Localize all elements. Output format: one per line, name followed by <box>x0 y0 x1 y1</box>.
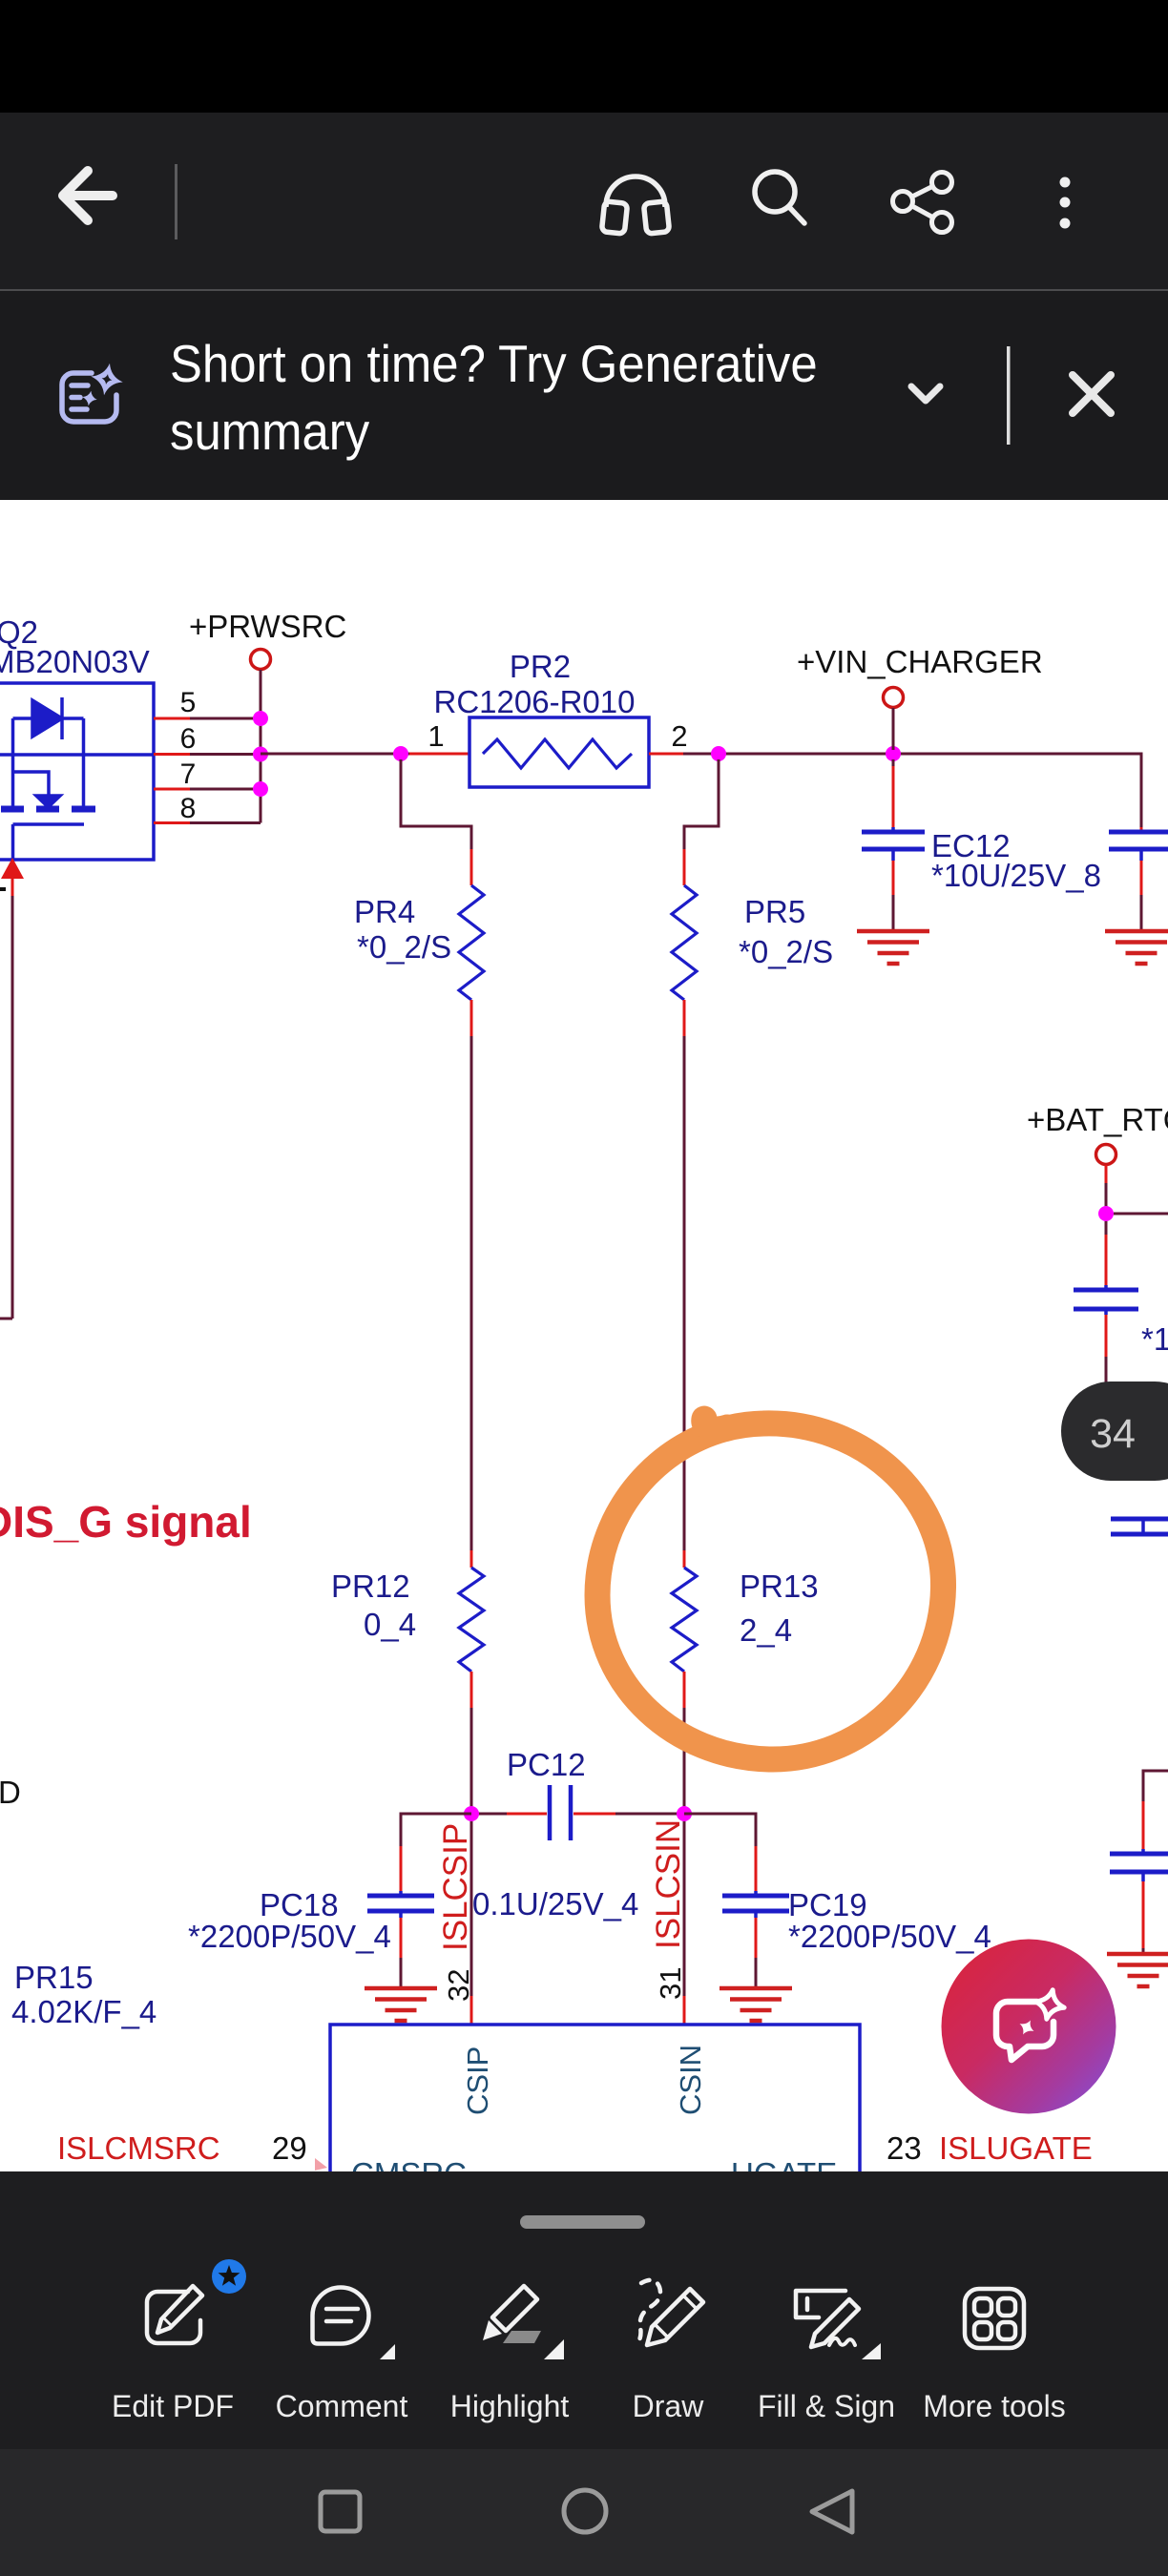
svg-text:*2200P/50V_4: *2200P/50V_4 <box>188 1919 391 1954</box>
svg-text:32: 32 <box>442 1969 475 2002</box>
capacitor right-edge top wire <box>1140 827 1143 832</box>
capacitor BAT wire top <box>1105 1221 1108 1235</box>
app toolbar <box>0 113 1168 291</box>
svg-text:PR4: PR4 <box>354 894 415 929</box>
Highlight icon <box>492 2286 537 2331</box>
junction node BAT <box>1098 1206 1114 1221</box>
generative summary banner <box>0 291 1168 500</box>
search icon <box>755 172 804 223</box>
wire corner lower right <box>1143 1771 1168 1801</box>
junction node VIN <box>886 746 901 761</box>
resistor PR12 top stub <box>470 1550 473 1568</box>
power symbol +VIN_CHARGER circle <box>884 688 904 708</box>
Q2 internal MOSFET structure <box>0 718 154 860</box>
wire PR5 bottom <box>683 1000 686 1036</box>
ground right-edge top <box>1105 931 1168 964</box>
small black tick at left <box>0 887 6 891</box>
capacitor EC12 plates <box>862 832 925 849</box>
banner chevron <box>911 386 940 401</box>
capacitor PC18 plates <box>367 1896 434 1911</box>
svg-text:34: 34 <box>1090 1411 1136 1457</box>
resistor PR13 bottom stub <box>683 1672 686 1708</box>
page number bubble 34 <box>1061 1381 1168 1481</box>
pink selection marker <box>315 2158 327 2171</box>
svg-text:29: 29 <box>272 2130 307 2166</box>
capacitor PC12 plates <box>550 1785 571 1840</box>
Edit PDF icon <box>147 2286 202 2343</box>
capacitor PC19 wire bottom <box>754 1911 758 1918</box>
ground PC19 <box>720 1988 792 2021</box>
Q2 pin 7 stub and wire <box>154 788 190 791</box>
wire branch down to PR5 <box>684 759 719 849</box>
svg-text:ISLCSIN: ISLCSIN <box>650 1819 687 1949</box>
nav back triangle <box>812 2491 852 2532</box>
junction node ISLCSIP <box>464 1806 479 1821</box>
svg-text:D: D <box>0 1775 21 1810</box>
ground EC12 <box>857 931 929 964</box>
svg-text:+PRWSRC: +PRWSRC <box>189 609 346 644</box>
svg-text:8: 8 <box>180 793 197 824</box>
annotation orange circle around PR13 <box>597 1419 944 1759</box>
wire BAT circle down <box>1105 1165 1108 1183</box>
banner divider <box>1007 346 1011 445</box>
svg-text:*10U/25V_8: *10U/25V_8 <box>931 858 1101 893</box>
share icon <box>893 173 952 233</box>
svg-text:+VIN_CHARGER: +VIN_CHARGER <box>797 644 1043 679</box>
nav square <box>321 2492 360 2531</box>
wire left edge with red arrow <box>1 858 24 879</box>
wire +PRWSRC vertical <box>260 670 262 823</box>
resistor PR13 zigzag <box>672 1568 697 1672</box>
svg-text:PR15: PR15 <box>14 1960 94 1995</box>
PR2 pin 2 stub <box>649 753 683 756</box>
capacitor EC12 wire bottom <box>891 849 895 861</box>
junction node ISLCSIN <box>677 1806 692 1821</box>
resistor PR12 zigzag <box>459 1568 484 1672</box>
capacitor below bubble plates <box>1111 1519 1168 1534</box>
capacitor lower right plates <box>1110 1854 1168 1872</box>
svg-text:5: 5 <box>180 687 197 718</box>
resistor PR4 zigzag <box>459 885 484 1000</box>
bottom tool sheet <box>0 2171 1168 2449</box>
wire CSIN vertical into IC <box>683 1821 686 1996</box>
svg-text:1: 1 <box>428 719 444 753</box>
Q2 pin 5 stub and wire <box>154 717 190 720</box>
svg-text:DIS_G signal: DIS_G signal <box>0 1497 252 1547</box>
transistor Q2 body box <box>0 683 154 860</box>
svg-text:CSIP: CSIP <box>461 2046 494 2115</box>
svg-text:PR2: PR2 <box>510 649 571 684</box>
svg-text:PC19: PC19 <box>788 1887 867 1922</box>
svg-text:2_4: 2_4 <box>740 1612 792 1648</box>
capacitor PC12 right stub <box>574 1813 615 1816</box>
svg-text:PC12: PC12 <box>507 1747 586 1782</box>
status bar <box>0 0 1168 113</box>
junction node pin7 <box>253 781 268 797</box>
banner AI doc icon <box>62 364 123 422</box>
resistor PR2 zigzag <box>483 739 632 768</box>
android nav bar <box>0 2449 1168 2576</box>
wire CSIP vertical into IC <box>470 1821 473 1996</box>
svg-text:+BAT_RTC: +BAT_RTC <box>1027 1102 1168 1137</box>
capacitor right-edge top wire bottom <box>1139 849 1143 861</box>
grab handle <box>520 2215 645 2229</box>
back arrow <box>63 171 113 220</box>
wire BAT to right edge <box>1114 1213 1168 1215</box>
svg-text:0_4: 0_4 <box>364 1607 416 1642</box>
svg-text:4.02K/F_4: 4.02K/F_4 <box>11 1994 156 2029</box>
junction node pin6 <box>253 747 268 762</box>
More tools icon <box>965 2289 1024 2348</box>
wire left branch to PC18 <box>401 1814 471 1846</box>
ground PC18 <box>365 1988 437 2021</box>
toolbar divider <box>175 164 177 239</box>
svg-text:*1: *1 <box>1141 1321 1168 1357</box>
capacitor lower right wire bottom <box>1141 1872 1145 1881</box>
power symbol +PRWSRC circle <box>251 650 271 670</box>
wire main net to PR2 pin1 <box>261 753 409 756</box>
junction node PR2 pin1 <box>393 746 408 761</box>
svg-text:UGATE: UGATE <box>731 2156 837 2171</box>
capacitor PC18 wire bottom <box>399 1911 403 1918</box>
Q2 pin 6 stub and wire <box>154 753 190 756</box>
Q2 pin 8 stub and wire <box>154 821 190 824</box>
junction node pin5 <box>253 711 268 726</box>
banner close X <box>1073 375 1111 413</box>
svg-text:PC18: PC18 <box>260 1887 339 1922</box>
wire VIN circle to net <box>892 708 895 750</box>
svg-text:6: 6 <box>180 723 197 755</box>
wire right branch to PC19 <box>684 1814 756 1846</box>
capacitor BAT wire bottom <box>1104 1309 1108 1315</box>
svg-text:ISLUGATE: ISLUGATE <box>939 2130 1093 2166</box>
svg-text:2: 2 <box>671 719 687 753</box>
capacitor BAT plates <box>1074 1290 1138 1309</box>
svg-text:7: 7 <box>180 758 197 790</box>
nav circle <box>564 2490 606 2532</box>
IC box U1 <box>330 2025 860 2192</box>
capacitor right-edge top plates <box>1109 832 1168 849</box>
resistor PR2 body box <box>469 717 649 787</box>
wire main net PR2 to right edge corner <box>719 754 1141 827</box>
svg-text:RC1206-R010: RC1206-R010 <box>434 684 636 719</box>
Comment icon <box>313 2288 369 2344</box>
capacitor PC12 left stub <box>471 1813 507 1816</box>
svg-text:PR5: PR5 <box>744 894 805 929</box>
svg-text:*2200P/50V_4: *2200P/50V_4 <box>788 1919 991 1954</box>
headphones icon <box>601 177 669 234</box>
Draw icon <box>636 2280 703 2345</box>
SCHEMATIC AREA <box>0 500 1168 2171</box>
wire branch down to PR4 <box>401 759 471 849</box>
svg-text:CSIN: CSIN <box>674 2045 707 2115</box>
resistor PR5 zigzag <box>672 885 697 1000</box>
capacitor below bubble stub <box>1141 1519 1145 1534</box>
power symbol +BAT_RTC circle <box>1096 1145 1116 1165</box>
junction node PR2 pin2 <box>711 746 726 761</box>
overflow menu dots <box>1060 177 1071 229</box>
ground lower right <box>1107 1954 1168 1986</box>
capacitor EC12 wire top <box>892 759 895 766</box>
svg-text:MB20N03V: MB20N03V <box>0 644 150 679</box>
capacitor PC19 plates <box>722 1896 789 1911</box>
svg-text:PR12: PR12 <box>331 1568 410 1604</box>
svg-text:CMSRC: CMSRC <box>351 2156 467 2171</box>
svg-text:ISLCSIP: ISLCSIP <box>437 1823 474 1951</box>
wire PR4 bottom <box>470 1000 473 1036</box>
svg-text:ISLCMSRC: ISLCMSRC <box>57 2130 220 2166</box>
svg-text:*0_2/S: *0_2/S <box>357 929 451 965</box>
resistor PR12 bottom stub <box>470 1672 473 1708</box>
svg-text:31: 31 <box>654 1967 687 2000</box>
svg-text:0.1U/25V_4: 0.1U/25V_4 <box>472 1886 638 1922</box>
svg-text:23: 23 <box>886 2130 922 2166</box>
svg-text:PR13: PR13 <box>740 1568 819 1604</box>
Q2 internal body diode <box>13 697 84 739</box>
svg-text:*0_2/S: *0_2/S <box>739 934 833 969</box>
Fill and Sign icon <box>796 2291 859 2347</box>
resistor PR13 top stub <box>683 1550 686 1568</box>
